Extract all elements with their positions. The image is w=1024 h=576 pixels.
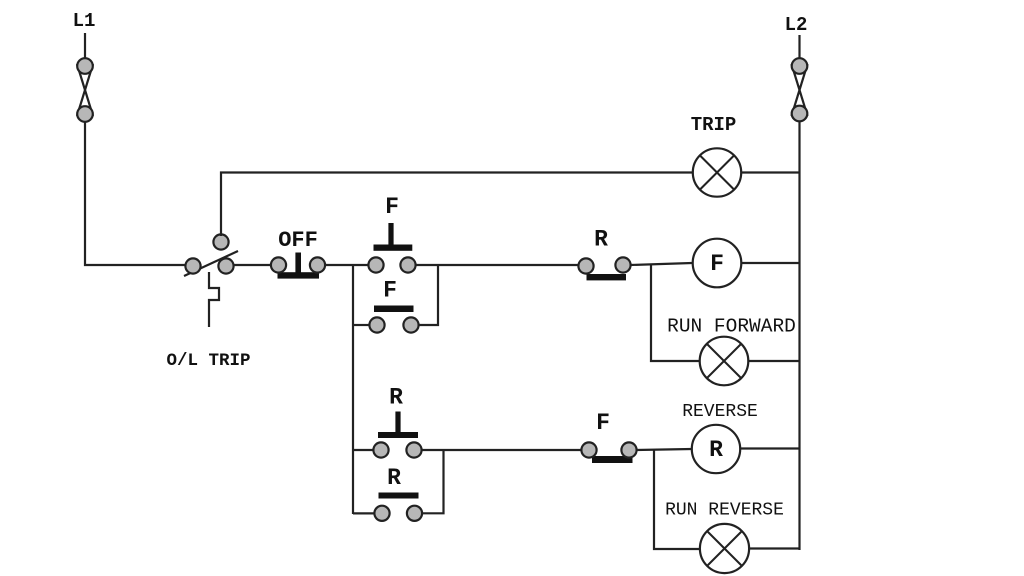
svg-text:R: R [709, 437, 723, 463]
fuse FU1 (L1 disconnect) [77, 58, 93, 122]
contact R seal-in (NO) [374, 493, 422, 521]
svg-text:R: R [387, 465, 401, 491]
svg-text:REVERSE: REVERSE [682, 402, 758, 422]
wire lamp RUN FORWARD to right rail [748, 360, 800, 362]
wire O/L to OFF [233, 264, 271, 266]
svg-text:R: R [389, 385, 403, 411]
svg-text:O/L TRIP: O/L TRIP [166, 351, 250, 371]
wire right rail [798, 121, 800, 550]
lamp RUN FORWARD [700, 337, 749, 386]
wire lamp TRIP to right rail [741, 171, 800, 173]
wire R PB to F contact [422, 449, 581, 451]
svg-text:F: F [596, 410, 610, 436]
wire R contact to coil F [630, 263, 692, 265]
pushbutton OFF (NC) [271, 253, 325, 279]
wire OFF to F PB [325, 264, 368, 266]
wire coil R to right rail [740, 447, 800, 449]
pushbutton F (NO) [368, 223, 415, 273]
svg-text:R: R [594, 227, 608, 253]
pushbutton R (NO) [373, 412, 421, 458]
wire lamp RUN REVERSE to right rail [749, 547, 800, 549]
wire L1 lead [84, 33, 86, 60]
svg-text:L2: L2 [785, 14, 808, 36]
wire left rail [85, 121, 186, 265]
contact F seal-in (NO) [369, 306, 418, 333]
svg-text:TRIP: TRIP [691, 114, 737, 136]
wire F seal-in right stub [419, 265, 438, 325]
svg-text:F: F [383, 278, 397, 304]
svg-text:F: F [385, 194, 399, 220]
coil R [692, 425, 740, 473]
wire F contact to coil R [636, 449, 692, 450]
wire F PB to R contact [416, 264, 578, 266]
contact R interlock (NC) [578, 257, 630, 280]
wire R seal-in left stub [353, 512, 374, 514]
svg-text:RUN REVERSE: RUN REVERSE [665, 501, 784, 521]
wire F seal-in left stub [353, 324, 369, 326]
svg-text:F: F [710, 251, 724, 277]
svg-text:RUN FORWARD: RUN FORWARD [667, 316, 796, 338]
wire RUN REVERSE branch [654, 450, 700, 549]
coil F [693, 239, 742, 288]
wire TRIP rung [221, 173, 693, 237]
wire F branch left vertical [352, 265, 354, 514]
wire L2 lead [798, 35, 800, 60]
svg-text:OFF: OFF [278, 228, 318, 253]
fuse FU2 (L2 disconnect) [792, 58, 808, 121]
wire R PB left stub [353, 449, 373, 451]
wire R seal-in right stub [422, 450, 444, 513]
overload heater element [209, 272, 219, 327]
contact F interlock (NC) [581, 442, 636, 463]
lamp RUN REVERSE [700, 524, 749, 573]
overload contact O/L [184, 234, 238, 276]
wire RUN FORWARD branch [651, 264, 700, 361]
wire coil F to right rail [741, 262, 800, 264]
svg-text:L1: L1 [73, 10, 96, 32]
lamp TRIP [693, 148, 741, 196]
